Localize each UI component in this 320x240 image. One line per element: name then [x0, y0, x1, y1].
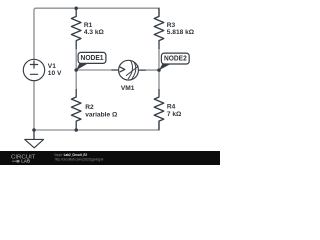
svg-text:http://circuitlab.com/c2622qgs: http://circuitlab.com/c2622qgs4zgxk	[55, 157, 104, 161]
svg-text:LAB: LAB	[21, 158, 30, 163]
svg-text:R2: R2	[85, 104, 94, 111]
svg-text:4.3 kΩ: 4.3 kΩ	[84, 29, 105, 36]
svg-text:NODE2: NODE2	[164, 56, 187, 63]
svg-text:5.818 kΩ: 5.818 kΩ	[167, 29, 195, 36]
svg-text:R4: R4	[167, 103, 176, 110]
svg-text:10 V: 10 V	[48, 70, 62, 77]
svg-text:7 kΩ: 7 kΩ	[167, 111, 182, 118]
svg-text:V1: V1	[48, 63, 56, 70]
svg-text:VM1: VM1	[121, 85, 135, 92]
svg-text:NODE1: NODE1	[81, 55, 104, 62]
svg-text:R3: R3	[167, 22, 176, 29]
svg-text:variable Ω: variable Ω	[85, 112, 118, 119]
svg-text:R1: R1	[84, 22, 93, 29]
